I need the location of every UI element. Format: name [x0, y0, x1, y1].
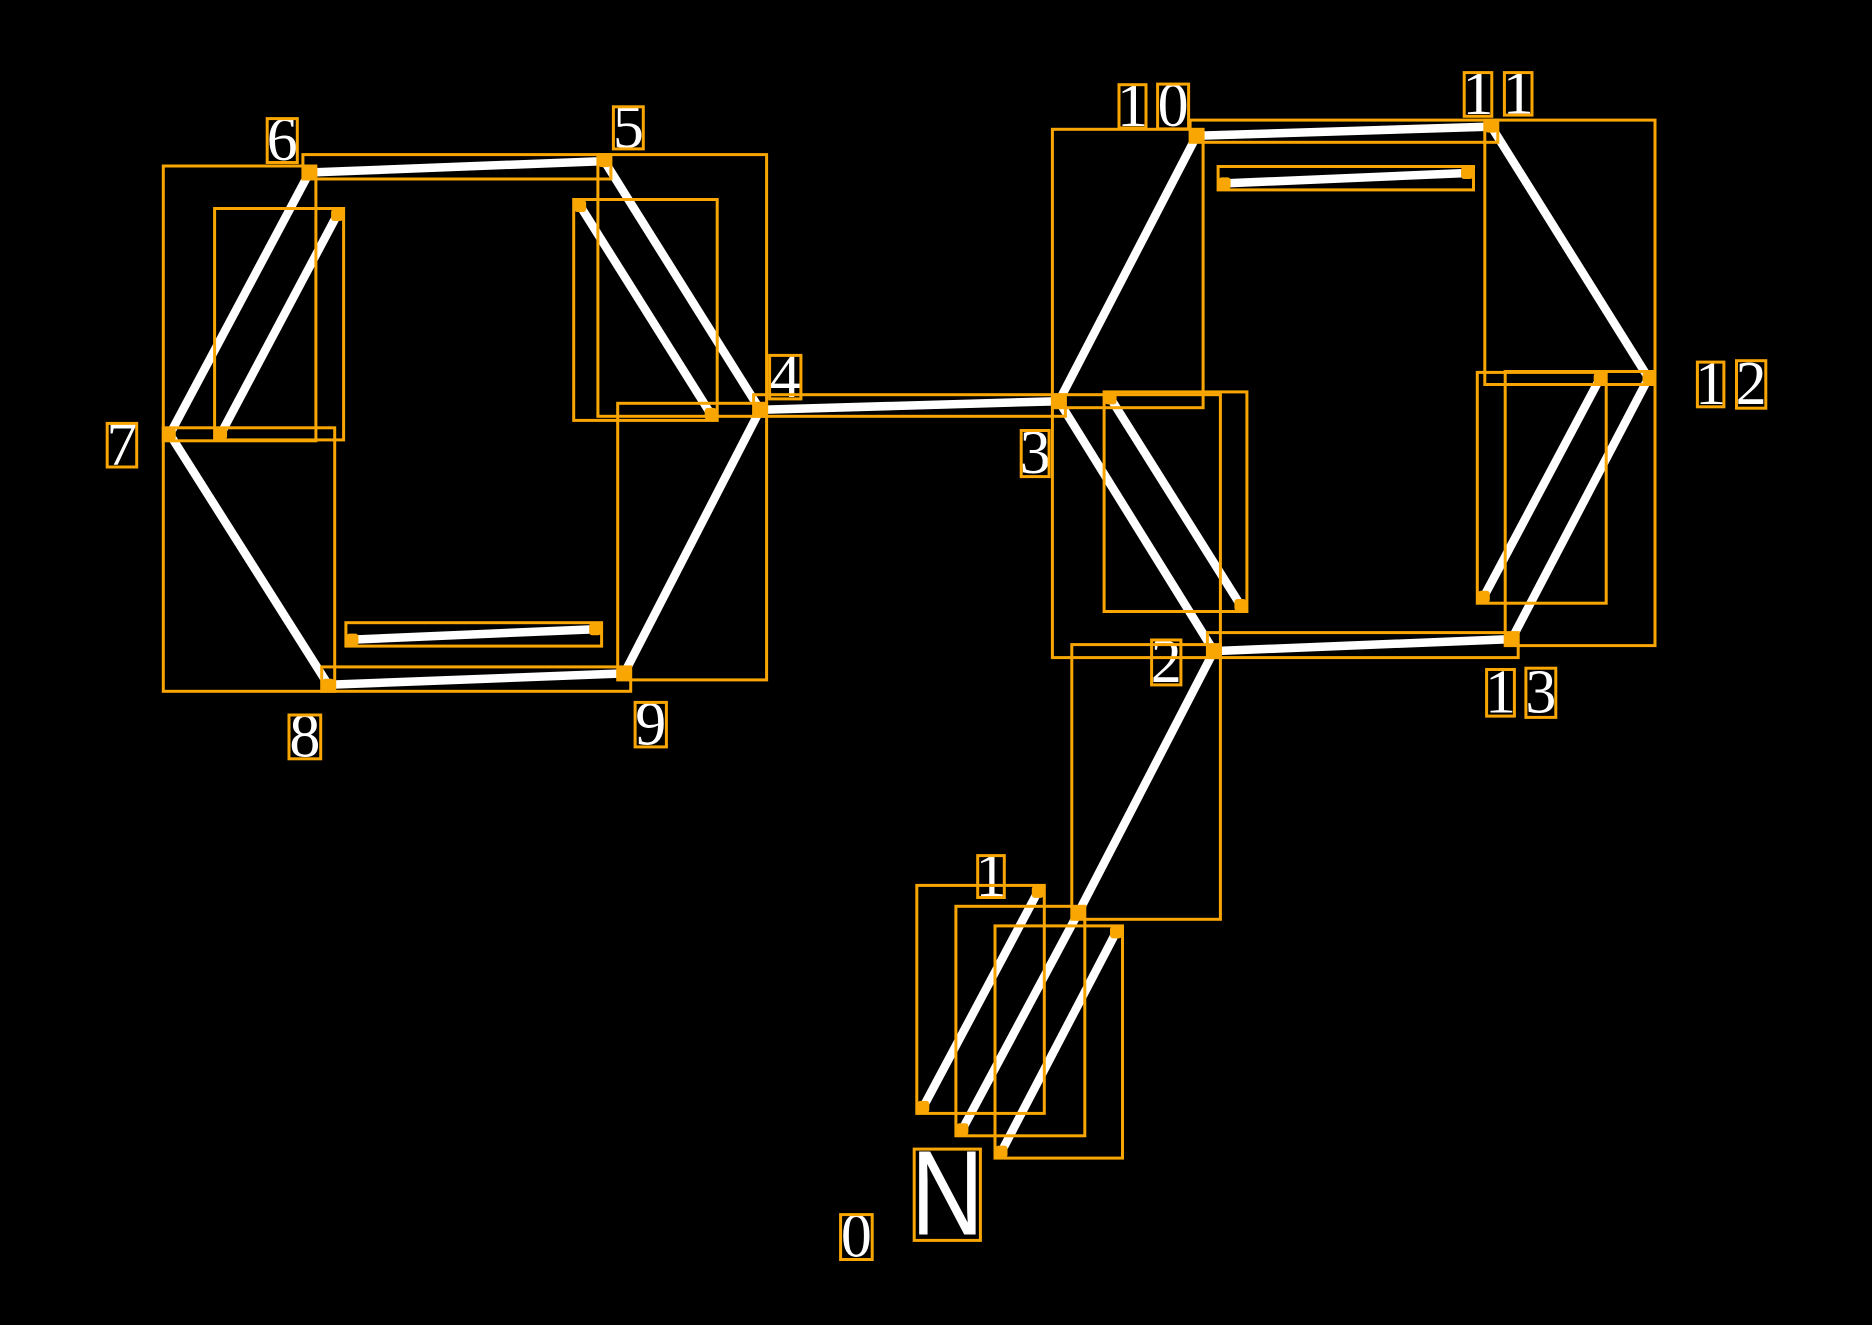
svg-text:7: 7: [106, 411, 137, 479]
svg-text:4: 4: [770, 343, 801, 411]
svg-text:1: 1: [1463, 60, 1494, 128]
svg-text:1: 1: [976, 842, 1007, 910]
svg-text:5: 5: [613, 93, 644, 161]
svg-text:1: 1: [1503, 59, 1534, 127]
